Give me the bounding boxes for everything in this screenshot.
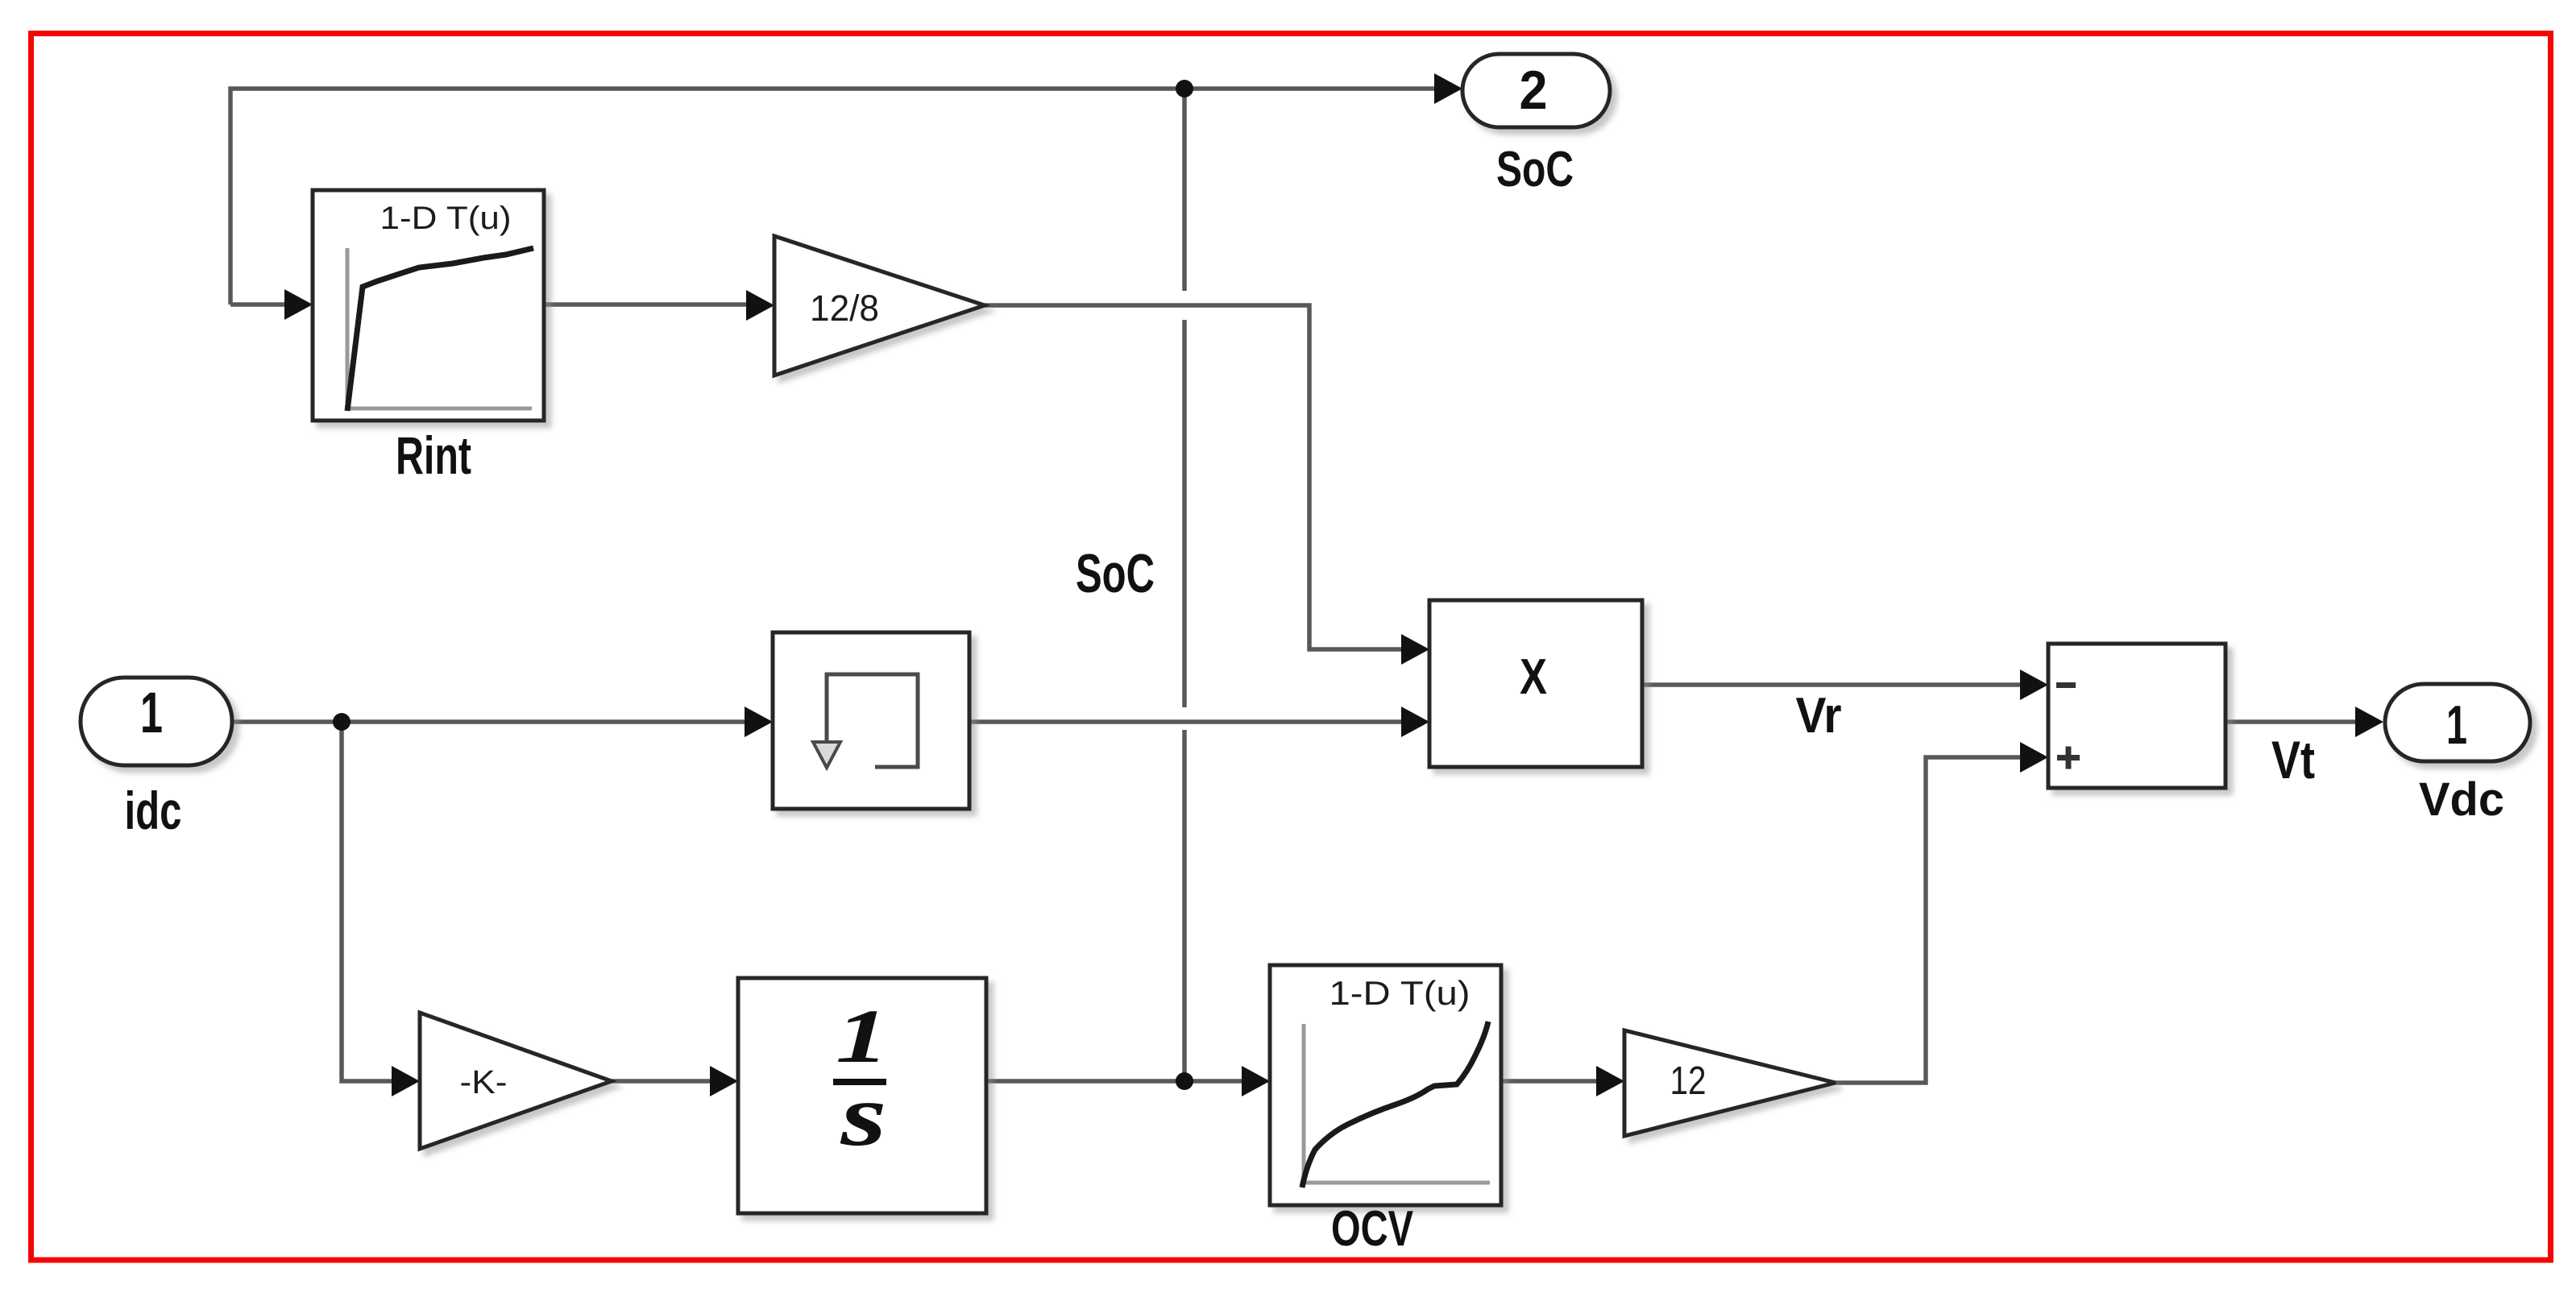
svg-text:X: X — [1520, 649, 1547, 705]
svg-text:Vt: Vt — [2271, 730, 2315, 790]
svg-text:-K-: -K- — [460, 1063, 508, 1100]
svg-text:1-D T(u): 1-D T(u) — [380, 201, 512, 236]
svg-text:SoC: SoC — [1076, 543, 1155, 604]
svg-text:12: 12 — [1670, 1059, 1707, 1103]
svg-text:12/8: 12/8 — [810, 288, 879, 329]
svg-text:Vdc: Vdc — [2419, 773, 2504, 826]
svg-text:1: 1 — [140, 682, 163, 745]
svg-text:s: s — [840, 1066, 886, 1164]
svg-text:Rint: Rint — [396, 425, 471, 485]
svg-text:SoC: SoC — [1496, 142, 1574, 197]
svg-text:1-D T(u): 1-D T(u) — [1329, 974, 1471, 1012]
svg-text:2: 2 — [1520, 60, 1548, 121]
svg-text:idc: idc — [125, 781, 182, 840]
svg-text:Vr: Vr — [1796, 688, 1842, 744]
svg-text:1: 1 — [2446, 694, 2467, 756]
svg-text:OCV: OCV — [1331, 1201, 1413, 1257]
